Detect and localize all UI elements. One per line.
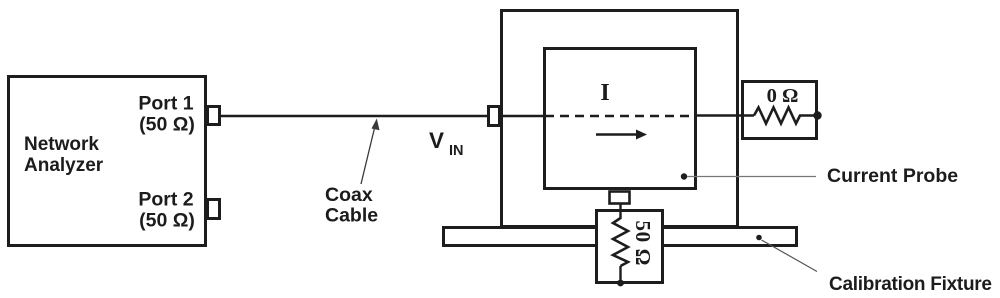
port 2 connector xyxy=(208,200,220,219)
svg-text:Port 2: Port 2 xyxy=(138,189,193,211)
svg-text:Analyzer: Analyzer xyxy=(24,155,104,176)
resistor 0 ohm box xyxy=(743,82,817,139)
svg-text:(50 Ω): (50 Ω) xyxy=(139,114,195,136)
svg-text:Port 1: Port 1 xyxy=(138,93,193,115)
svg-text:50 Ω: 50 Ω xyxy=(631,221,655,266)
svg-text:Network: Network xyxy=(24,134,99,155)
probe output stem connector xyxy=(610,192,630,204)
node: 0 ohm termination dot xyxy=(813,111,821,119)
leader arrow to Coax Cable wire xyxy=(361,119,380,185)
leader line to Current Probe label xyxy=(687,176,816,178)
resistor 50 ohm box xyxy=(597,211,663,283)
svg-text:Coax: Coax xyxy=(325,184,373,206)
wire stem to 50 ohm resistor xyxy=(619,203,621,219)
svg-text:Cable: Cable xyxy=(325,205,378,227)
network analyzer box xyxy=(9,77,206,246)
svg-text:Current Probe: Current Probe xyxy=(827,165,958,187)
resistor 0 ohm zigzag xyxy=(754,108,817,124)
port 1 connector xyxy=(208,107,220,125)
svg-text:(50 Ω): (50 Ω) xyxy=(139,210,195,232)
svg-text:Calibration Fixture: Calibration Fixture xyxy=(829,274,992,295)
svg-text:I: I xyxy=(600,80,609,106)
current probe inner box xyxy=(545,49,696,189)
calibration fixture bar xyxy=(444,228,797,246)
probe input connector xyxy=(489,107,500,126)
svg-text:V: V xyxy=(429,128,444,153)
node: 50 ohm bottom dot xyxy=(617,280,624,287)
current probe outer box xyxy=(502,11,738,227)
node: calibration fixture pointer dot xyxy=(756,235,762,241)
svg-text:IN: IN xyxy=(449,143,464,159)
wire current path (dashed) xyxy=(545,115,696,117)
wire coax cable (port 1 to probe input) xyxy=(220,115,488,117)
node: current probe pointer dot xyxy=(681,173,687,179)
svg-text:0 Ω: 0 Ω xyxy=(767,85,799,107)
wire 50 ohm resistor to ground node xyxy=(619,266,621,283)
wire inner box to 0 ohm resistor xyxy=(696,114,754,116)
wire current arrow xyxy=(596,130,647,140)
leader line to Calibration Fixture label xyxy=(762,240,818,272)
resistor 50 ohm zigzag xyxy=(613,218,628,266)
wire probe input to inner box xyxy=(501,115,544,117)
